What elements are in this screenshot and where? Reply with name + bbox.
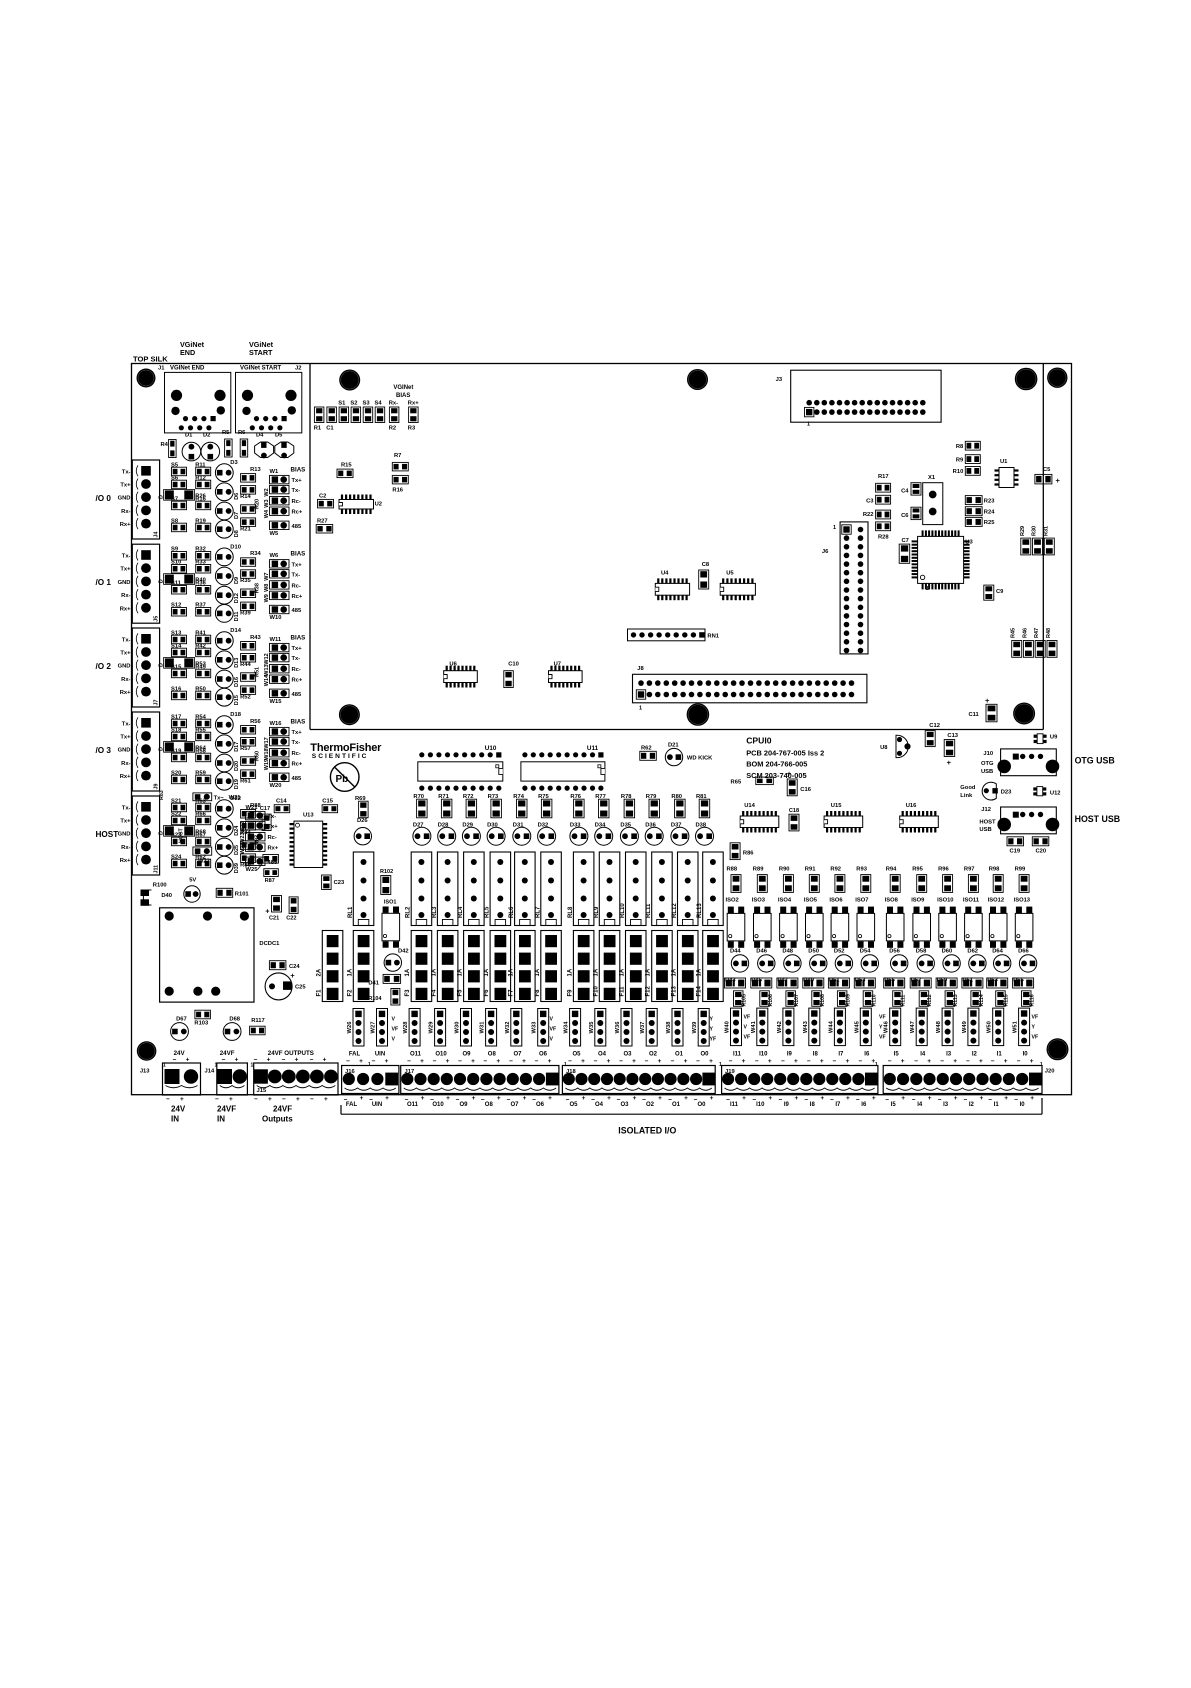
svg-text:−: − (458, 1058, 462, 1065)
svg-text:C15: C15 (322, 799, 333, 805)
svg-text:R56: R56 (250, 719, 261, 725)
svg-text:R3: R3 (408, 426, 416, 432)
svg-text:R55: R55 (195, 727, 206, 733)
svg-text:+: + (980, 1095, 984, 1102)
svg-text:−: − (752, 1097, 756, 1104)
svg-text:U12: U12 (1050, 791, 1061, 797)
svg-text:R103: R103 (194, 1021, 209, 1027)
svg-text:−: − (509, 1058, 513, 1065)
svg-text:R48: R48 (1046, 628, 1052, 638)
svg-text:W15: W15 (270, 699, 283, 705)
svg-text:1: 1 (833, 525, 836, 531)
svg-text:+: + (795, 1095, 799, 1102)
svg-text:RN1: RN1 (707, 634, 719, 640)
svg-text:W23: W23 (240, 832, 246, 843)
svg-text:Tx+: Tx+ (120, 735, 131, 741)
svg-text:D: D (159, 663, 165, 667)
svg-text:R98: R98 (989, 867, 1000, 873)
svg-text:D4: D4 (256, 433, 264, 439)
svg-text:O5: O5 (569, 1102, 578, 1108)
svg-text:−: − (830, 1097, 834, 1104)
svg-text:R26: R26 (195, 494, 206, 500)
svg-text:I5: I5 (891, 1102, 897, 1108)
svg-text:ISO2: ISO2 (726, 897, 739, 903)
svg-text:+: + (901, 1095, 905, 1102)
svg-text:R116: R116 (1030, 994, 1036, 1006)
svg-text:D26: D26 (357, 818, 368, 824)
svg-text:+: + (471, 1058, 475, 1065)
svg-text:VF: VF (392, 1027, 399, 1033)
svg-text:OTG: OTG (981, 761, 994, 767)
svg-text:−: − (346, 1058, 350, 1065)
svg-text:1A: 1A (593, 968, 599, 976)
svg-text:ISO7: ISO7 (855, 897, 868, 903)
svg-text:D67: D67 (176, 1017, 187, 1023)
svg-text:F12: F12 (646, 985, 652, 996)
svg-text:D5: D5 (275, 433, 283, 439)
svg-text:C8: C8 (702, 562, 710, 568)
svg-text:R88: R88 (727, 867, 738, 873)
svg-text:S18: S18 (171, 727, 182, 733)
svg-text:I0: I0 (1023, 1052, 1029, 1058)
svg-text:+: + (787, 771, 791, 778)
svg-text:R65: R65 (731, 780, 742, 786)
svg-text:SCIENTIFIC: SCIENTIFIC (312, 753, 369, 760)
svg-text:24VF: 24VF (273, 1105, 292, 1114)
svg-text:−: − (807, 1058, 811, 1065)
svg-text:D12: D12 (234, 593, 240, 603)
svg-text:F10: F10 (593, 985, 599, 996)
svg-text:D42: D42 (398, 948, 409, 954)
svg-text:2A: 2A (316, 968, 322, 976)
svg-text:S14: S14 (171, 643, 182, 649)
svg-text:GND: GND (118, 580, 131, 586)
svg-text:W51: W51 (1013, 1020, 1019, 1033)
svg-text:Rx+: Rx+ (120, 690, 131, 696)
svg-text:W26: W26 (347, 1021, 353, 1034)
svg-text:ISO5: ISO5 (804, 897, 818, 903)
svg-text:ISO10: ISO10 (937, 897, 953, 903)
svg-text:W2: W2 (264, 488, 270, 496)
svg-text:−: − (938, 1097, 942, 1104)
svg-text:−: − (568, 1058, 572, 1065)
svg-text:RL9: RL9 (594, 906, 600, 918)
svg-text:−: − (591, 1097, 595, 1104)
svg-text:+: + (265, 909, 269, 916)
svg-text:−: − (966, 1058, 970, 1065)
svg-text:WD KICK: WD KICK (687, 756, 713, 762)
svg-text:Rc+: Rc+ (292, 510, 303, 516)
svg-text:+: + (497, 1095, 501, 1102)
svg-text:VF: VF (1032, 1015, 1039, 1021)
svg-text:Rc-: Rc- (292, 667, 301, 673)
svg-text:J3: J3 (776, 377, 783, 383)
svg-text:U14: U14 (744, 803, 755, 809)
svg-text:U1: U1 (1000, 459, 1008, 465)
svg-text:W40: W40 (725, 1021, 731, 1033)
svg-text:START: START (249, 348, 273, 357)
svg-text:C5: C5 (1043, 467, 1051, 473)
svg-text:I10: I10 (756, 1102, 765, 1108)
svg-text:GND: GND (118, 664, 131, 670)
svg-text:U11: U11 (587, 745, 599, 752)
svg-text:Rx-: Rx- (121, 509, 130, 515)
svg-text:O11: O11 (407, 1102, 419, 1108)
svg-text:HOST: HOST (979, 819, 996, 825)
svg-text:Tx+: Tx+ (292, 646, 303, 652)
svg-text:+: + (472, 1095, 476, 1102)
svg-text:R41: R41 (195, 630, 206, 636)
svg-text:O0: O0 (697, 1102, 706, 1108)
svg-text:Rx+: Rx+ (268, 846, 279, 852)
svg-text:+: + (421, 1095, 425, 1102)
svg-text:W7: W7 (264, 573, 270, 581)
svg-text:−: − (696, 1058, 700, 1065)
svg-text:J11: J11 (154, 865, 160, 874)
svg-text:+: + (954, 1095, 958, 1102)
svg-text:R54: R54 (195, 714, 206, 720)
svg-text:+: + (684, 1058, 688, 1065)
svg-text:F1: F1 (316, 989, 322, 997)
svg-text:C19: C19 (1010, 848, 1021, 854)
svg-text:R89: R89 (753, 867, 764, 873)
svg-text:IN: IN (171, 1115, 179, 1124)
svg-text:1A: 1A (405, 968, 411, 976)
svg-text:RL13: RL13 (697, 903, 703, 918)
svg-text:R33: R33 (195, 560, 206, 566)
svg-text:R12: R12 (195, 475, 206, 481)
svg-text:+: + (581, 1058, 585, 1065)
svg-text:485: 485 (292, 524, 302, 530)
svg-text:W36: W36 (615, 1021, 621, 1034)
svg-text:R68: R68 (195, 830, 206, 836)
svg-text:R95: R95 (912, 867, 923, 873)
svg-text:I8: I8 (810, 1102, 816, 1108)
svg-text:Tx+: Tx+ (120, 567, 131, 573)
svg-text:W10: W10 (270, 615, 282, 621)
svg-text:R20: R20 (255, 499, 261, 509)
svg-text:F6: F6 (484, 989, 490, 997)
svg-text:D17: D17 (234, 742, 240, 752)
svg-text:O7: O7 (510, 1102, 519, 1108)
svg-text:R38: R38 (255, 583, 261, 593)
svg-text:I6: I6 (864, 1052, 870, 1058)
svg-text:24VF: 24VF (217, 1105, 236, 1114)
svg-text:R53: R53 (195, 662, 206, 668)
svg-text:C12: C12 (929, 723, 940, 729)
svg-text:+: + (658, 1058, 662, 1065)
svg-text:Tx-: Tx- (122, 469, 131, 475)
svg-text:+: + (607, 1095, 611, 1102)
svg-text:J7: J7 (154, 700, 160, 706)
svg-text:J8: J8 (637, 666, 644, 672)
svg-text:−: − (430, 1097, 434, 1104)
svg-text:−: − (755, 1058, 759, 1065)
svg-text:R7: R7 (394, 453, 401, 459)
svg-text:D46: D46 (756, 949, 767, 955)
svg-text:D44: D44 (730, 949, 741, 955)
svg-text:GND: GND (118, 832, 131, 838)
svg-text:−: − (991, 1058, 995, 1065)
svg-text:R83: R83 (159, 790, 165, 800)
svg-text:R64: R64 (195, 746, 206, 752)
svg-text:BIAS: BIAS (396, 393, 410, 399)
svg-text:+: + (229, 1096, 233, 1103)
svg-text:−: − (617, 1097, 621, 1104)
svg-text:−: − (372, 1058, 376, 1065)
svg-text:D11: D11 (234, 612, 240, 622)
svg-text:/O 2: /O 2 (96, 662, 112, 671)
svg-text:W30: W30 (455, 1022, 461, 1034)
svg-text:S12: S12 (171, 603, 181, 609)
svg-text:J15: J15 (257, 1088, 267, 1094)
svg-text:+: + (927, 1058, 931, 1065)
svg-text:U9: U9 (1050, 734, 1058, 740)
svg-text:1A: 1A (347, 968, 353, 976)
svg-text:I7: I7 (838, 1052, 844, 1058)
svg-text:D48: D48 (782, 949, 793, 955)
svg-text:W45: W45 (854, 1020, 860, 1033)
svg-text:−: − (566, 1097, 570, 1104)
svg-text:+: + (742, 1095, 746, 1102)
svg-text:S21: S21 (171, 798, 182, 804)
svg-text:/O 3: /O 3 (96, 746, 112, 755)
svg-text:V: V (550, 1017, 554, 1023)
svg-text:I8: I8 (813, 1052, 819, 1058)
svg-text:J5: J5 (154, 616, 160, 622)
svg-text:RL2: RL2 (406, 906, 412, 918)
svg-text:Rx-: Rx- (389, 401, 398, 407)
svg-text:−: − (858, 1058, 862, 1065)
svg-text:−: − (344, 1097, 348, 1104)
svg-text:W11: W11 (270, 637, 282, 643)
svg-text:R17: R17 (878, 474, 889, 480)
svg-text:U8: U8 (880, 745, 888, 751)
svg-text:R92: R92 (830, 867, 841, 873)
svg-text:R9: R9 (956, 457, 964, 463)
svg-text:W42: W42 (777, 1021, 783, 1033)
svg-text:+: + (446, 1058, 450, 1065)
svg-text:+: + (947, 758, 952, 767)
svg-text:V: V (392, 1037, 396, 1043)
svg-text:Tx+: Tx+ (292, 478, 303, 484)
svg-text:GND: GND (118, 748, 131, 754)
svg-text:F7: F7 (509, 989, 515, 997)
svg-text:I11: I11 (730, 1102, 739, 1108)
svg-text:R10: R10 (953, 469, 964, 475)
svg-text:D20: D20 (234, 761, 240, 771)
svg-text:Tx-: Tx- (292, 488, 301, 494)
svg-text:R114: R114 (979, 994, 985, 1006)
svg-text:Rc+: Rc+ (292, 594, 303, 600)
svg-text:1A: 1A (484, 968, 490, 976)
svg-text:D54: D54 (860, 949, 871, 955)
svg-text:O0: O0 (700, 1052, 709, 1058)
svg-text:C24: C24 (289, 964, 300, 970)
svg-text:U3: U3 (965, 539, 973, 545)
svg-text:VF: VF (744, 1035, 751, 1041)
svg-text:J17: J17 (405, 1069, 415, 1075)
svg-text:Rc-: Rc- (268, 835, 277, 841)
svg-text:R113: R113 (953, 994, 959, 1006)
svg-text:R97: R97 (964, 867, 975, 873)
svg-text:ISO4: ISO4 (778, 897, 792, 903)
svg-text:S1: S1 (338, 401, 346, 407)
svg-text:U10: U10 (485, 745, 497, 752)
svg-text:R112: R112 (927, 994, 933, 1006)
svg-text:R108: R108 (820, 994, 826, 1007)
svg-text:O8: O8 (485, 1102, 494, 1108)
svg-text:+: + (548, 1095, 552, 1102)
svg-text:Link: Link (960, 793, 973, 799)
svg-text:R110: R110 (871, 994, 877, 1006)
svg-text:W14: W14 (264, 674, 270, 686)
svg-text:−: − (1017, 1058, 1021, 1065)
svg-text:W17: W17 (264, 737, 270, 748)
svg-text:Rx+: Rx+ (120, 858, 131, 864)
svg-text:Tx-: Tx- (122, 721, 131, 727)
svg-text:+: + (607, 1058, 611, 1065)
svg-text:1: 1 (926, 586, 929, 592)
svg-text:R94: R94 (886, 867, 897, 873)
svg-text:W8: W8 (264, 584, 270, 592)
svg-text:RL4: RL4 (458, 906, 464, 918)
svg-text:W19: W19 (264, 759, 270, 770)
svg-text:V: V (550, 1037, 554, 1043)
svg-text:I1: I1 (994, 1102, 1000, 1108)
svg-text:SCM 203-740-005: SCM 203-740-005 (746, 771, 806, 780)
svg-text:D14: D14 (230, 628, 241, 634)
svg-text:ISO6: ISO6 (829, 897, 843, 903)
svg-text:−: − (166, 1096, 170, 1103)
svg-text:+: + (768, 1095, 772, 1102)
svg-text:RL7: RL7 (535, 906, 541, 918)
svg-text:R57: R57 (240, 746, 251, 752)
svg-text:S16: S16 (171, 686, 182, 692)
svg-text:F11: F11 (620, 986, 626, 997)
svg-text:O10: O10 (432, 1102, 444, 1108)
svg-text:+: + (1056, 476, 1061, 485)
svg-text:1A: 1A (697, 968, 703, 976)
svg-text:Rx+: Rx+ (120, 774, 131, 780)
svg-text:W50: W50 (987, 1021, 993, 1033)
svg-text:+: + (1030, 1095, 1034, 1102)
svg-text:D8: D8 (234, 530, 240, 537)
svg-text:ISO9: ISO9 (911, 897, 925, 903)
svg-text:C22: C22 (286, 916, 296, 922)
svg-text:Y: Y (879, 1025, 883, 1031)
svg-text:BIAS: BIAS (291, 466, 306, 473)
svg-text:W32: W32 (505, 1022, 511, 1034)
svg-text:24VF OUTPUTS: 24VF OUTPUTS (268, 1050, 314, 1057)
svg-text:X1: X1 (928, 475, 936, 481)
svg-text:+: + (953, 1058, 957, 1065)
svg-text:C23: C23 (334, 880, 345, 886)
svg-text:+: + (290, 971, 295, 980)
svg-text:R19: R19 (195, 518, 206, 524)
svg-text:I6: I6 (861, 1102, 867, 1108)
svg-text:−: − (405, 1097, 409, 1104)
svg-text:1: 1 (251, 1063, 254, 1069)
svg-text:W48: W48 (936, 1020, 942, 1033)
svg-text:V: V (392, 1017, 396, 1023)
svg-text:−: − (940, 1058, 944, 1065)
svg-text:+: + (709, 1058, 713, 1065)
svg-text:R52: R52 (240, 695, 251, 701)
svg-text:RL6: RL6 (509, 906, 515, 918)
svg-text:S17: S17 (171, 714, 181, 720)
svg-text:R4: R4 (161, 442, 169, 448)
svg-text:O6: O6 (539, 1052, 548, 1058)
svg-text:C13: C13 (947, 733, 958, 739)
svg-text:RL11: RL11 (646, 903, 652, 918)
svg-text:D60: D60 (942, 949, 953, 955)
svg-text:VF: VF (744, 1015, 751, 1021)
svg-text:+: + (846, 1058, 850, 1065)
svg-text:R16: R16 (392, 488, 403, 494)
svg-text:U5: U5 (726, 571, 734, 577)
svg-text:W31: W31 (480, 1021, 486, 1034)
svg-text:+: + (684, 1095, 688, 1102)
svg-text:R46: R46 (1022, 628, 1028, 638)
svg-text:VF: VF (550, 1027, 557, 1033)
svg-text:W44: W44 (828, 1020, 834, 1033)
svg-text:O9: O9 (459, 1102, 468, 1108)
svg-text:R101: R101 (235, 891, 250, 897)
svg-text:+: + (820, 1095, 824, 1102)
svg-text:D68: D68 (229, 1017, 240, 1023)
svg-text:Outputs: Outputs (262, 1115, 293, 1124)
svg-text:W9: W9 (264, 594, 270, 602)
svg-text:C6: C6 (901, 513, 909, 519)
svg-text:R60: R60 (255, 751, 261, 761)
svg-text:C14: C14 (276, 799, 287, 805)
svg-text:D50: D50 (808, 949, 819, 955)
svg-text:Y: Y (710, 1027, 714, 1033)
svg-text:+: + (548, 1058, 552, 1065)
svg-text:DCDC1: DCDC1 (259, 941, 280, 947)
svg-text:R43: R43 (250, 635, 261, 641)
svg-text:Rx+: Rx+ (120, 606, 131, 612)
svg-text:J2: J2 (295, 366, 301, 372)
svg-text:CPUI0: CPUI0 (746, 736, 772, 746)
svg-text:F4: F4 (431, 989, 437, 997)
svg-text:+: + (180, 1096, 184, 1103)
svg-text:W18: W18 (264, 748, 270, 759)
svg-text:W33: W33 (532, 1021, 538, 1034)
svg-text:1A: 1A (535, 968, 541, 976)
svg-text:R106: R106 (768, 994, 774, 1007)
svg-text:D21: D21 (668, 743, 679, 749)
svg-text:BIAS: BIAS (291, 551, 306, 558)
svg-text:+: + (523, 1095, 527, 1102)
svg-text:O1: O1 (675, 1052, 684, 1058)
svg-text:+: + (901, 1058, 905, 1065)
svg-text:S24: S24 (171, 854, 182, 860)
svg-text:+: + (296, 1096, 300, 1103)
svg-text:Y: Y (1032, 1025, 1036, 1031)
svg-text:D6: D6 (234, 493, 240, 500)
svg-text:UIN: UIN (372, 1102, 382, 1108)
svg-text:W25: W25 (246, 867, 259, 873)
svg-text:+: + (846, 1095, 850, 1102)
svg-text:OTG USB: OTG USB (1075, 756, 1115, 766)
svg-text:TOP SILK: TOP SILK (133, 355, 168, 364)
svg-text:−: − (481, 1097, 485, 1104)
svg-text:S13: S13 (171, 630, 182, 636)
svg-text:D: D (159, 495, 165, 499)
svg-text:W39: W39 (692, 1021, 698, 1034)
